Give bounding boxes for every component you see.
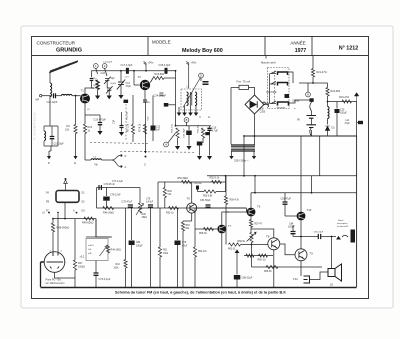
svg-text:R51-1k: R51-1k (166, 212, 175, 215)
svg-text:GRUNDIG: GRUNDIG (56, 48, 82, 54)
svg-text:Melody Boy 600: Melody Boy 600 (182, 48, 223, 54)
svg-text:interruption: interruption (337, 222, 348, 225)
terminal block top dot (65, 178, 67, 180)
wire C19 gnd (209, 131, 211, 156)
terminal D dot (120, 154, 122, 156)
wire R49b bot (164, 198, 166, 209)
wire T1 collector up (85, 88, 94, 93)
mains terminal (263, 102, 265, 104)
DIN plug pins (47, 252, 64, 269)
diode D1 (325, 126, 329, 131)
wire R51b bot (159, 257, 161, 287)
wire tank feed (49, 96, 51, 126)
capacitor C39 (186, 131, 192, 136)
wire R49b ends (164, 182, 166, 188)
wire sortie row 2 (322, 236, 337, 238)
resistor R15 (153, 76, 164, 79)
fuse F1 (239, 85, 249, 89)
wire T2 base (134, 84, 140, 86)
node IF bus left (175, 125, 177, 127)
resistor R57 (249, 220, 252, 228)
node bus-x175 (175, 70, 177, 72)
wire R58 down (251, 243, 253, 256)
svg-text:100k: 100k (114, 268, 120, 270)
wire BF rail A (207, 175, 357, 177)
bridge diode symbol (250, 101, 257, 107)
svg-text:R7-4,7k: R7-4,7k (140, 123, 142, 132)
svg-text:C35-3,3pF: C35-3,3pF (159, 64, 171, 67)
svg-text:C80-56n: C80-56n (194, 183, 203, 185)
resistor R48 pot (138, 203, 141, 213)
switch contact S1b (278, 83, 288, 86)
resistor R4 (74, 125, 77, 134)
wire L2 to T1 base (72, 95, 81, 97)
svg-text:R48-390kΩ: R48-390kΩ (57, 227, 70, 230)
wire AF line (97, 207, 247, 209)
wire power bus (244, 135, 357, 137)
capacitor trimmer Fu (90, 79, 94, 81)
inductor L10 filter (328, 107, 330, 119)
wire sortie row (293, 236, 318, 238)
scanned card edge (21, 26, 393, 308)
wire T8 emitter down (273, 250, 275, 287)
wire T10 emitter down (300, 220, 302, 236)
svg-text:CONSTRUCTEUR: CONSTRUCTEUR (37, 41, 76, 46)
wire R59 row (252, 266, 323, 268)
resistor R54 (193, 247, 196, 257)
terminal input (40, 95, 42, 97)
ground R30 (175, 146, 180, 150)
svg-text:Défaut: Défaut (293, 100, 300, 103)
resistor R53h (204, 190, 216, 193)
wire R56 bot (225, 205, 227, 213)
switch mechanical link (274, 72, 276, 103)
terminal bracket A (112, 160, 120, 167)
svg-text:1977: 1977 (295, 48, 307, 54)
capacitor C81 (283, 202, 288, 204)
wire C13 down (120, 85, 122, 95)
inductor IF primary (187, 92, 189, 106)
inductor L1 antenna coil (50, 83, 52, 97)
wire C4 to ground (108, 90, 110, 95)
svg-text:FA: FA (46, 192, 49, 195)
resistor R61 (229, 243, 241, 246)
capacitor C17 series (126, 68, 129, 74)
svg-text:47µF: 47µF (182, 245, 188, 247)
transistor T1 (80, 94, 90, 104)
wire T2 collector right (150, 78, 153, 83)
volume pot arrow (100, 246, 107, 256)
svg-text:R30-3,3k: R30-3,3k (172, 123, 174, 133)
svg-text:R54-47k: R54-47k (198, 251, 208, 253)
switch contact S1a (278, 72, 288, 75)
svg-text:R32-82k: R32-82k (198, 124, 200, 133)
wire junction down (75, 96, 77, 125)
wire jack to speaker (310, 272, 329, 280)
resistor R2 bias (96, 80, 99, 90)
resistor R43 (124, 260, 127, 269)
terminal C arrow (144, 151, 147, 154)
capacitor T2 emitter Fu (143, 100, 147, 102)
transformer TR windings (231, 145, 255, 151)
wire input row (42, 95, 51, 97)
capacitor C19 (207, 128, 211, 130)
svg-text:T8: T8 (266, 235, 270, 239)
ground C13 (118, 95, 123, 99)
wire IF pri down (178, 107, 180, 113)
capacitor C81s series (206, 205, 211, 207)
pin dot c (76, 212, 78, 214)
wire IF sec down (195, 106, 197, 113)
svg-text:C15-15pF: C15-15pF (54, 144, 65, 146)
svg-text:100µF: 100µF (136, 245, 143, 247)
svg-text:C81 56µF: C81 56µF (200, 199, 211, 202)
node T10 emitter row (300, 236, 302, 238)
IF tuning arrow (183, 78, 201, 108)
svg-text:Marche arrêt: Marche arrêt (261, 61, 276, 65)
svg-text:Sortie: Sortie (338, 219, 344, 222)
terminal C dot (145, 156, 147, 158)
node battery/R21 (312, 82, 314, 84)
wire IF feed top (200, 78, 202, 81)
svg-text:R50-39kΩ: R50-39kΩ (178, 178, 189, 180)
wire bracket stem (102, 159, 113, 161)
wire C39 gnd (188, 135, 190, 146)
wire R54 top (194, 208, 196, 247)
svg-text:FB: FB (46, 201, 49, 204)
wire tank-D link (49, 150, 51, 152)
wire mains left (231, 87, 239, 89)
svg-text:R57-47: R57-47 (255, 224, 263, 226)
svg-text:T1: T1 (81, 89, 85, 93)
wire long vertical from bus (175, 71, 177, 126)
capacitor C4 trimmer (106, 86, 113, 93)
tuning unit block (56, 191, 79, 203)
battery B1 hook top (310, 102, 312, 111)
capacitor C75 (129, 241, 135, 246)
wire C76 rail (97, 187, 141, 189)
svg-text:R48: R48 (142, 214, 147, 216)
wire mains pin a (231, 151, 233, 156)
capacitor C79 series (148, 205, 153, 207)
svg-text:C34-220pF: C34-220pF (154, 95, 167, 98)
resistor R53 (181, 222, 184, 231)
wire C79 chain top (177, 208, 179, 240)
svg-text:écouteur HP: écouteur HP (337, 225, 349, 228)
wire x246 stub (246, 208, 248, 212)
wire T2 emitter cont (145, 102, 147, 151)
wire T2 base net (133, 71, 135, 85)
pot arrow R48b (136, 203, 144, 215)
svg-text:W. SCHEMATHEQUE: W. SCHEMATHEQUE (33, 112, 37, 140)
node railA x225 (225, 175, 227, 177)
earphone jack (304, 276, 310, 283)
wire R54 bot (194, 257, 196, 287)
wire T6 emitter down (191, 213, 193, 221)
wire T8 collector up (251, 229, 274, 238)
wire C78 stub (106, 188, 108, 197)
wire battery wire (311, 111, 313, 116)
pin dot b (57, 212, 59, 214)
svg-text:Vol.: Vol. (88, 249, 92, 251)
wire C19 stub (209, 126, 211, 128)
wire railA-railB link (225, 176, 227, 182)
resistor R10 (83, 124, 86, 134)
wire IF mid down (190, 106, 192, 113)
svg-text:9pF: 9pF (111, 77, 116, 80)
wire C12 down (152, 131, 154, 142)
svg-text:R60-1Ω: R60-1Ω (258, 260, 266, 262)
wire C39 stub (188, 126, 190, 130)
wire BF rail B (158, 181, 226, 183)
svg-text:R52-5,1k: R52-5,1k (210, 177, 221, 180)
capacitor C36 (164, 103, 169, 107)
svg-text:D: D (48, 161, 50, 165)
svg-text:C80: C80 (136, 242, 141, 244)
wire C84 to row (292, 234, 294, 237)
wire bus drop x301 (300, 136, 302, 212)
wire L1 to input node (49, 95, 51, 98)
wire top supply bus (92, 70, 176, 72)
svg-text:R49: R49 (168, 191, 173, 193)
resistor R48 (51, 223, 54, 232)
inductor choke mid (91, 159, 101, 160)
wire mains pin b (253, 151, 255, 156)
wire R15 on (164, 77, 176, 79)
capacitor C84 (291, 232, 296, 234)
wire T9 to jack (300, 274, 302, 276)
wire T7 up (222, 212, 229, 225)
svg-text:+5,2: +5,2 (80, 256, 85, 259)
resistor R32 (201, 128, 204, 138)
svg-text:E: E (74, 161, 76, 165)
capacitor C80b (196, 186, 199, 190)
wire R21 down (312, 77, 314, 83)
test point 8 (184, 118, 189, 123)
svg-text:T7: T7 (228, 224, 232, 228)
svg-text:100kΩ: 100kΩ (78, 266, 85, 269)
svg-text:Fus. 75 mA: Fus. 75 mA (237, 80, 251, 84)
DIN plug key (41, 261, 45, 263)
supply terminal +9Vs a (144, 61, 146, 70)
wire D drop (48, 151, 50, 156)
capacitor C21 (205, 132, 210, 135)
capacitor C34 marks (160, 93, 164, 95)
resistor R56 (224, 196, 227, 205)
wire speaker top (331, 237, 333, 269)
wire node row y83 (299, 82, 328, 84)
svg-text:1nF: 1nF (156, 129, 161, 132)
svg-text:R43: R43 (116, 264, 121, 266)
svg-text:100µF: 100µF (288, 226, 295, 229)
svg-text:C: C (144, 163, 146, 167)
header divider 3 (311, 37, 313, 56)
wire R10 down (84, 134, 86, 161)
wire switch inner left (269, 74, 271, 104)
wire R53 top (182, 221, 184, 222)
resistor R58 (250, 233, 253, 243)
wire C2A down (107, 81, 109, 88)
node bus bridge (254, 135, 256, 137)
capacitor C14 (124, 100, 129, 103)
wire tpA stub (307, 83, 309, 92)
wire T1 emitter down (84, 104, 86, 124)
svg-text:R61-51: R61-51 (228, 249, 236, 251)
wire C75 down (131, 245, 133, 287)
ground IF b (182, 113, 187, 117)
wire L10 to D1 (327, 119, 329, 125)
wire C26 to bus (336, 113, 338, 136)
wire R61 right (241, 244, 252, 246)
svg-text:R56-39: R56-39 (199, 233, 207, 235)
ground C43 (197, 156, 202, 160)
resistor R60 (246, 254, 254, 257)
svg-text:R51: R51 (163, 250, 168, 252)
DIN plug Prise PU (44, 252, 65, 273)
svg-text:R49-62kΩ: R49-62kΩ (82, 222, 93, 225)
wire right rail (356, 136, 358, 287)
wire tank bottom down (50, 146, 52, 151)
wire R53 jog (183, 220, 192, 222)
resistor R59 (266, 265, 278, 268)
terminal bracket D (112, 156, 120, 161)
wire R57 down (250, 228, 252, 233)
wire row y101 (328, 101, 357, 103)
test point 5 (199, 73, 204, 78)
resistor R52 rail (212, 180, 222, 183)
transistor T9 (295, 249, 307, 261)
battery jack (310, 98, 314, 102)
svg-text:C11-12pF: C11-12pF (47, 101, 58, 104)
svg-text:Schéma du tuner FM (en haut, à: Schéma du tuner FM (en haut, à gauche), … (115, 291, 286, 295)
wire tp8 stub (186, 123, 188, 126)
svg-text:R53-6,8k: R53-6,8k (203, 196, 213, 198)
capacitor C43 (197, 142, 203, 146)
resistor R49b (163, 188, 166, 198)
wire C75 chain top (131, 207, 133, 240)
svg-text:R59-56: R59-56 (264, 271, 272, 273)
svg-text:9V: 9V (297, 118, 300, 121)
node AF row mid (64, 218, 66, 220)
svg-text:C77-0,1µF: C77-0,1µF (112, 181, 123, 183)
wire long x125 (125, 208, 127, 260)
svg-text:R44-1MΩ: R44-1MΩ (111, 249, 122, 252)
capacitor C30 blob (285, 94, 290, 98)
wire T10/T9 chain (300, 237, 302, 250)
wire C34b gnd (121, 128, 123, 132)
jack break contact (342, 235, 348, 237)
terminal A dot (120, 165, 122, 167)
volume pot box (86, 239, 108, 261)
ground C34b (119, 132, 124, 136)
resistor R51 (169, 206, 179, 209)
node bus-T2c (145, 70, 147, 72)
svg-text:+9Vs: +9Vs (148, 62, 155, 65)
antenna rod (49, 61, 78, 73)
transistor T8 (268, 238, 280, 250)
svg-text:R56-4,7k: R56-4,7k (230, 200, 240, 202)
capacitor C76 (99, 185, 101, 190)
wire tp1 lead (96, 69, 98, 75)
wire C36 stub (168, 104, 175, 106)
ground C39 (186, 146, 191, 150)
wire T9 base (280, 244, 295, 255)
switch dashed box (268, 68, 290, 109)
header divider 2 (264, 37, 266, 56)
mechanical coupling dash line b (120, 151, 196, 154)
svg-text:8,2pF: 8,2pF (111, 83, 117, 85)
wire choke leads (85, 159, 91, 161)
wire R2 to ground (97, 90, 99, 96)
wire fuse to bridge (249, 88, 255, 96)
battery B1 hook bottom (310, 128, 312, 137)
wire T6 out (197, 207, 247, 209)
capacitor C26 (335, 109, 340, 113)
node railA x244 (243, 175, 245, 177)
terminal block top stub (64, 180, 68, 191)
wire R53 bottom (182, 231, 184, 287)
wire pot box down (95, 261, 97, 273)
resistor R46 (103, 206, 114, 209)
svg-text:T2: T2 (138, 75, 142, 79)
svg-text:H: H (208, 115, 210, 119)
svg-text:R1a 22k: R1a 22k (127, 111, 129, 120)
wire bus left bend (243, 136, 245, 176)
wire T5/T8 mid node (285, 215, 297, 217)
svg-text:C33 470pF: C33 470pF (94, 119, 107, 122)
wire R30 gnd (177, 138, 179, 146)
wire mains entry stub (265, 56, 267, 59)
resistor R5 (131, 125, 134, 135)
wire R53h right (216, 182, 226, 192)
svg-text:A: A (307, 93, 309, 97)
resistor R45 volume (106, 245, 109, 253)
node bus-C13 (120, 70, 122, 72)
capacitor C2A trimmer (104, 77, 111, 84)
svg-text:T6: T6 (187, 197, 191, 201)
wire battery down (311, 130, 313, 136)
pot R58 (247, 232, 257, 241)
wire AF row (53, 218, 96, 220)
mechanical coupling dash line a (90, 143, 148, 144)
switch blade S1c (270, 101, 276, 104)
header bottom rule (32, 55, 369, 57)
svg-text:R23-680: R23-680 (331, 90, 341, 93)
header divider 1 (147, 37, 149, 56)
svg-text:100µF: 100µF (340, 112, 347, 115)
resistor R47 (73, 260, 76, 270)
terminal arrow E (74, 156, 78, 159)
svg-text:N° 1212: N° 1212 (339, 46, 359, 52)
capacitor C15 tank (50, 137, 55, 139)
ground C4 (107, 96, 112, 100)
supply arrow sortie (336, 236, 341, 240)
bridge rectifier GR1 (245, 95, 264, 114)
wire R48 to plug (52, 232, 54, 252)
inductor L2 (62, 94, 72, 95)
wire C79 down (177, 245, 179, 287)
svg-text:R15-68k: R15-68k (155, 73, 165, 76)
ground R2 (95, 96, 100, 100)
ground C33 (97, 131, 102, 135)
svg-text:sur 10kΩ environ: sur 10kΩ environ (46, 282, 66, 285)
svg-text:R58-5k: R58-5k (238, 241, 246, 243)
resistor R21 (311, 69, 314, 78)
wire T5 base (226, 211, 247, 213)
svg-text:+9Vs: +9Vs (191, 62, 198, 65)
mains terminal a (229, 156, 233, 159)
wire C81 down (284, 204, 286, 216)
